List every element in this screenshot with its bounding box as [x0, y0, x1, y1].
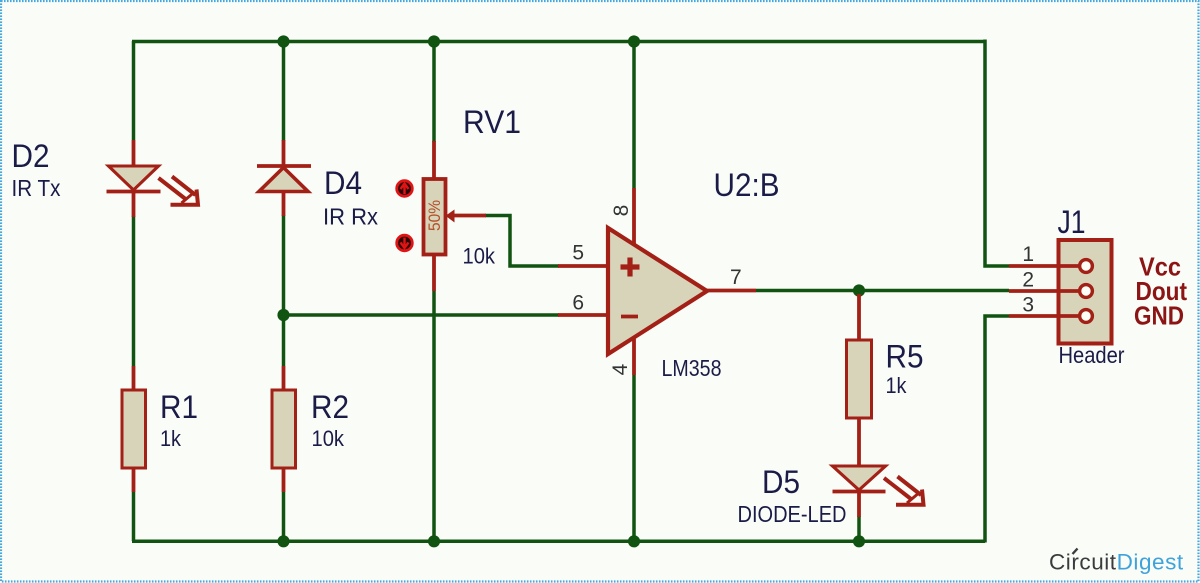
svg-text:10k: 10k	[463, 244, 496, 269]
diode D4	[257, 140, 311, 216]
junction node RV1/GND rail	[428, 535, 440, 547]
resistor R2	[272, 366, 296, 492]
svg-text:1k: 1k	[886, 373, 908, 398]
wire RV1 branch top	[432, 41, 436, 142]
wire op-amp output net	[756, 289, 1009, 293]
wire D4 branch top	[282, 41, 286, 141]
svg-text:7: 7	[730, 266, 742, 289]
op-amp U2:B pin7 lead	[707, 289, 756, 293]
svg-text:R5: R5	[886, 339, 924, 375]
svg-text:CircuitDigest: CircuitDigest	[1049, 550, 1184, 575]
RV1 down adjust symbol	[397, 235, 413, 251]
junction node RV1/top rail	[428, 35, 440, 47]
svg-text:LM358: LM358	[662, 355, 722, 381]
resistor R5	[847, 294, 872, 466]
svg-text:3: 3	[1022, 294, 1034, 317]
wire GND left vertical	[132, 492, 136, 541]
svg-text:GND: GND	[1134, 301, 1184, 331]
RV1 up adjust symbol	[397, 181, 413, 197]
wire Vcc right vertical to J1 pin1	[985, 40, 1009, 267]
op-amp U2:B pin5 lead	[558, 264, 608, 268]
svg-text:8: 8	[610, 205, 633, 217]
op-amp U2:B pin8 lead	[632, 188, 636, 246]
wire Vcc left vertical	[132, 41, 136, 140]
svg-text:D5: D5	[762, 464, 800, 500]
wire D4 to R2	[282, 215, 286, 366]
junction node R5/output wire	[853, 284, 865, 296]
junction node pin4/GND rail	[628, 535, 640, 547]
LED D2	[107, 140, 199, 217]
svg-text:5: 5	[572, 242, 584, 265]
svg-text:Header: Header	[1059, 342, 1125, 368]
junction node D5/GND rail	[853, 535, 865, 547]
potentiometer RV1	[424, 141, 487, 291]
junction node D4/top rail	[277, 35, 289, 47]
op-amp U2:B body	[608, 228, 707, 354]
svg-text:4: 4	[609, 363, 632, 375]
wire R5 top stub	[857, 291, 861, 297]
wire op-amp pin8 branch	[632, 41, 636, 188]
header J1 body	[1059, 240, 1112, 344]
junction node pin8/top rail	[628, 35, 640, 47]
wire inverting input net	[284, 313, 560, 317]
wire GND right vertical to J1 pin3	[985, 316, 1009, 543]
header J1 pin1 lead	[1009, 264, 1079, 268]
LED D5	[833, 466, 924, 517]
junction node R2/inverting wire	[277, 309, 289, 321]
svg-text:IR Tx: IR Tx	[12, 175, 61, 201]
svg-text:D2: D2	[12, 138, 50, 174]
wire wiper to non-inverting input	[485, 216, 559, 267]
svg-text:50%: 50%	[425, 200, 444, 231]
svg-text:10k: 10k	[312, 426, 345, 451]
junction node R2/GND rail	[277, 535, 289, 547]
svg-text:R1: R1	[160, 389, 198, 425]
wire R2 bottom	[282, 492, 286, 541]
svg-text:J1: J1	[1058, 204, 1086, 240]
wire D2 to R1	[132, 216, 136, 366]
svg-text:6: 6	[572, 292, 584, 315]
svg-text:R2: R2	[311, 389, 349, 425]
op-amp U2:B pin4 lead	[632, 336, 636, 375]
svg-text:IR Rx: IR Rx	[323, 204, 378, 230]
wire D5 bottom	[857, 516, 861, 541]
wire GND bottom rail	[132, 540, 985, 544]
header J1 pin2 lead	[1009, 289, 1079, 293]
svg-text:D4: D4	[324, 165, 362, 201]
wire op-amp pin4 bottom	[632, 375, 636, 541]
CircuitDigest logo	[1049, 549, 1184, 575]
svg-text:U2:B: U2:B	[714, 167, 780, 203]
wire Vcc top rail	[132, 40, 985, 44]
svg-text:1k: 1k	[160, 426, 182, 451]
svg-text:1: 1	[1022, 243, 1034, 266]
wire RV1 bottom	[432, 291, 436, 541]
svg-text:RV1: RV1	[463, 104, 521, 140]
op-amp U2:B pin6 lead	[558, 313, 608, 317]
svg-text:DIODE-LED: DIODE-LED	[738, 501, 847, 527]
resistor R1	[122, 366, 146, 492]
svg-text:2: 2	[1022, 269, 1034, 292]
header J1 pin3 lead	[1009, 314, 1079, 318]
